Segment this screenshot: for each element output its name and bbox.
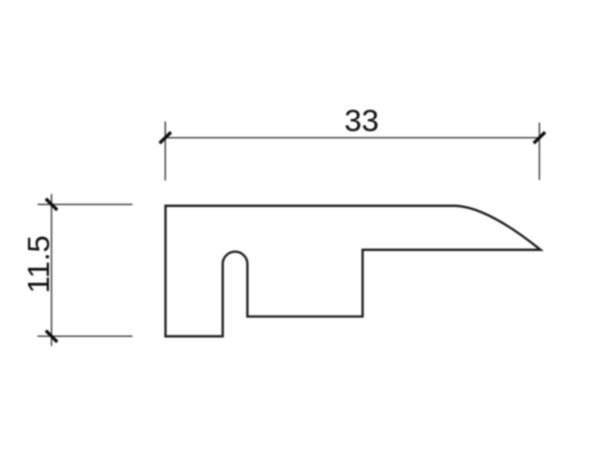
dimension line 11.5 (vertical) [51,194,53,346]
end-cap molding profile outline [166,206,541,336]
extension line bottom of dim 11.5 [38,335,133,337]
dimension line 33 (horizontal) [165,137,539,139]
extension line right of dim 33 [538,123,540,181]
tick top of dim 11.5 [46,199,57,210]
extension line top of dim 11.5 [38,203,133,205]
svg-text:11.5: 11.5 [21,235,56,293]
tick left of dim 33 [160,132,171,143]
svg-text:33: 33 [344,103,378,138]
tick right of dim 33 [534,132,545,143]
extension line left of dim 33 [164,122,166,181]
tick bottom of dim 11.5 [46,331,57,342]
